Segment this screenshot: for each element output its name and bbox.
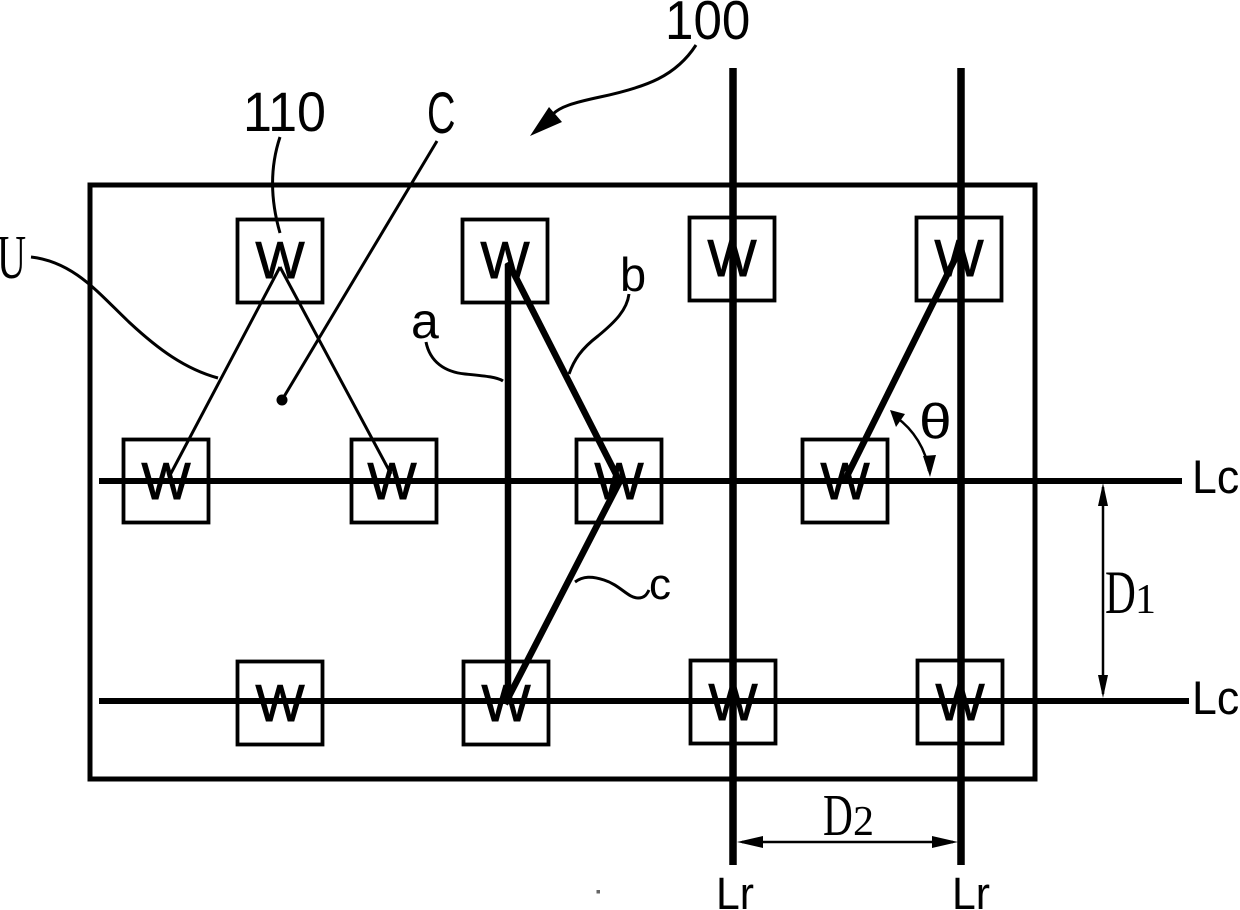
svg-text:Lr: Lr: [952, 869, 990, 910]
svg-text:W: W: [594, 453, 643, 511]
svg-text:b: b: [620, 248, 646, 301]
svg-text:2: 2: [853, 799, 874, 845]
svg-text:W: W: [820, 453, 869, 511]
svg-text:C: C: [427, 80, 455, 145]
svg-text:D: D: [1105, 560, 1136, 627]
svg-text:W: W: [255, 675, 304, 733]
svg-text:U: U: [0, 223, 26, 292]
svg-text:W: W: [708, 674, 757, 732]
svg-text:W: W: [141, 453, 190, 511]
svg-text:Lr: Lr: [716, 869, 754, 910]
svg-text:1: 1: [1135, 577, 1156, 623]
svg-text:D: D: [823, 784, 853, 849]
svg-text:W: W: [480, 232, 529, 290]
svg-text:W: W: [255, 232, 304, 290]
svg-text:W: W: [934, 230, 983, 288]
svg-text:c: c: [649, 560, 671, 609]
svg-text:W: W: [935, 674, 984, 732]
svg-text:W: W: [707, 230, 756, 288]
svg-text:W: W: [367, 453, 416, 511]
svg-text:110: 110: [243, 81, 326, 143]
svg-text:W: W: [481, 675, 530, 733]
svg-text:a: a: [411, 293, 439, 349]
svg-text:100: 100: [665, 0, 750, 51]
svg-text:θ: θ: [919, 395, 952, 449]
svg-text:Lc: Lc: [1192, 672, 1239, 724]
svg-text:Lc: Lc: [1192, 451, 1239, 503]
